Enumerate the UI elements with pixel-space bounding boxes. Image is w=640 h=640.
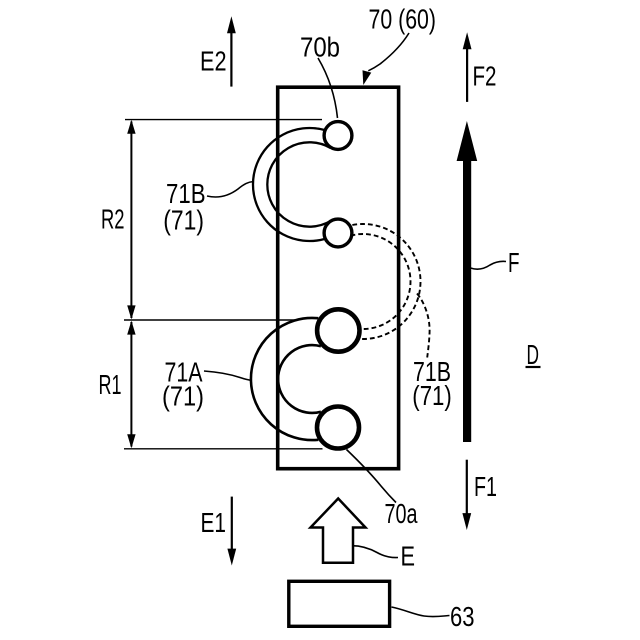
- plate 70 (60) outline: [278, 87, 399, 469]
- coil turn 71B (front, solid tube between holes 1-2): [253, 128, 342, 241]
- dimension line R1: [127, 321, 135, 449]
- box 63: [289, 581, 390, 626]
- arrow E2 (up): [227, 16, 236, 86]
- leader F to force arrow: [471, 261, 507, 269]
- svg-text:F: F: [508, 247, 520, 278]
- dimension extension line middle: [124, 319, 298, 321]
- leader 70b to top hole: [318, 58, 338, 118]
- leader 70a from bottom hole: [347, 450, 397, 503]
- svg-text:R2: R2: [101, 203, 125, 234]
- leader E to hollow arrow: [344, 546, 399, 558]
- svg-text:63: 63: [450, 601, 475, 632]
- svg-text:D: D: [527, 339, 540, 370]
- leader 71A to wide tube: [204, 371, 252, 381]
- hole 2: [324, 219, 352, 247]
- hole 70a (bottom): [317, 407, 359, 449]
- coil turn 71B (rear, dashed tube between holes 2-3): [331, 224, 421, 339]
- svg-text:F1: F1: [474, 471, 497, 502]
- svg-text:E: E: [401, 541, 416, 572]
- dimension extension line top (tangent to hole 70b top): [125, 119, 322, 121]
- svg-text:70a: 70a: [385, 498, 418, 529]
- svg-text:(71): (71): [162, 381, 204, 412]
- label D underlined: [526, 339, 541, 370]
- svg-text:(71): (71): [412, 380, 452, 411]
- svg-text:70 (60): 70 (60): [369, 4, 437, 35]
- arrow E1 (down): [227, 497, 236, 566]
- force arrow F (thick, up): [457, 121, 478, 442]
- hole 70b (top): [324, 122, 352, 150]
- hollow arrow E (up): [311, 499, 366, 563]
- arrow F1 (down): [462, 460, 471, 530]
- leader 70(60) with arrowhead to plate top edge: [363, 33, 410, 85]
- dimension extension line bottom (tangent to hole 70a bottom): [124, 448, 323, 450]
- leader 71B (left) to tube: [207, 182, 254, 198]
- hole 3: [317, 309, 359, 351]
- svg-text:E2: E2: [200, 46, 227, 77]
- svg-text:E1: E1: [201, 507, 227, 538]
- arrow F2 (up): [463, 32, 472, 102]
- svg-text:(71): (71): [163, 205, 204, 236]
- svg-text:R1: R1: [99, 369, 122, 400]
- svg-text:F2: F2: [473, 61, 497, 92]
- dashed leader to rear 71B label: [417, 294, 430, 358]
- dimension line R2: [127, 120, 135, 320]
- svg-text:70b: 70b: [300, 32, 340, 63]
- leader 63 to box: [392, 607, 450, 617]
- coil turn 71A (front, solid wide tube between holes 3-4): [251, 318, 321, 440]
